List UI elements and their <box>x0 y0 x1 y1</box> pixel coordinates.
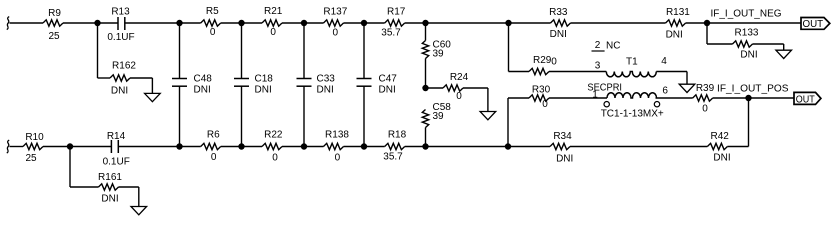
svg-text:DNI: DNI <box>379 85 396 96</box>
capacitor R13 0.1UF <box>107 7 134 44</box>
ground <box>145 93 161 101</box>
wire <box>549 71 606 73</box>
resistor R137 <box>324 20 344 26</box>
svg-text:C18: C18 <box>255 74 274 85</box>
capacitor C48 DNI <box>172 74 212 96</box>
wire <box>242 22 263 24</box>
svg-text:4: 4 <box>661 56 667 67</box>
svg-text:R5: R5 <box>206 6 219 17</box>
wire <box>425 23 427 41</box>
node junction bottom of C58 column <box>422 143 428 149</box>
svg-text:IF_I_OUT_POS: IF_I_OUT_POS <box>717 84 789 95</box>
svg-text:0.1UF: 0.1UF <box>103 157 130 168</box>
wire <box>180 22 201 24</box>
svg-text:R13: R13 <box>111 7 130 18</box>
svg-text:DNI: DNI <box>255 85 272 96</box>
wire <box>303 86 305 146</box>
svg-text:C47: C47 <box>379 74 398 85</box>
wire <box>425 128 427 147</box>
wire <box>179 86 181 146</box>
svg-text:0: 0 <box>333 27 339 38</box>
off-page connector (bottom-left torn wire) <box>7 140 9 153</box>
node junction bottom at x=508 <box>505 143 511 149</box>
off-page connector OUT (positive) <box>794 92 821 105</box>
wire <box>241 23 243 79</box>
wire <box>463 87 488 89</box>
svg-text:35.7: 35.7 <box>383 151 403 162</box>
svg-text:R21: R21 <box>264 6 283 17</box>
wire <box>98 77 111 79</box>
wire <box>509 71 530 73</box>
node junction top of C60 column <box>422 20 428 26</box>
wire <box>119 186 139 188</box>
wire <box>241 86 243 146</box>
wire <box>363 23 365 79</box>
resistor R24 0 <box>443 85 463 91</box>
wire <box>686 22 707 24</box>
wire <box>656 71 687 73</box>
svg-text:DNI: DNI <box>101 194 118 205</box>
wire <box>707 22 801 24</box>
svg-text:R18: R18 <box>388 129 407 140</box>
resistor R133 DNI <box>733 41 753 47</box>
svg-text:TC1-1-13MX+: TC1-1-13MX+ <box>601 109 664 120</box>
resistor R131 DNI <box>666 20 686 26</box>
svg-text:R17: R17 <box>387 6 406 17</box>
svg-text:R6: R6 <box>207 129 220 140</box>
wire <box>138 187 140 207</box>
wire <box>727 146 748 148</box>
wire <box>10 146 24 148</box>
node junction bottom at x=241.5 <box>238 143 244 149</box>
wire <box>69 147 71 188</box>
resistor R22 <box>262 143 282 149</box>
capacitor C18 DNI <box>234 74 273 96</box>
wire <box>508 97 529 99</box>
wire <box>426 146 508 148</box>
resistor R39 0 <box>693 95 713 101</box>
svg-text:0: 0 <box>270 27 276 38</box>
svg-text:DNI: DNI <box>556 154 573 165</box>
svg-text:DNI: DNI <box>111 86 128 97</box>
svg-text:3: 3 <box>595 61 601 72</box>
wire <box>282 146 304 148</box>
wire <box>508 146 550 148</box>
svg-text:R33: R33 <box>549 7 568 18</box>
svg-text:0: 0 <box>702 104 708 115</box>
ground <box>679 84 695 92</box>
svg-text:6: 6 <box>662 86 668 97</box>
svg-text:0: 0 <box>210 27 216 38</box>
node junction bottom at x=304.0 <box>301 143 307 149</box>
wire <box>304 22 324 24</box>
resistor R18 <box>385 143 405 149</box>
svg-text:R133: R133 <box>735 28 759 39</box>
wire <box>363 86 365 146</box>
svg-text:R29: R29 <box>533 55 552 66</box>
transformer T1 TC1-1-13MX+ <box>587 40 668 120</box>
svg-text:2: 2 <box>595 40 601 51</box>
wire <box>405 22 426 24</box>
svg-text:DNI: DNI <box>713 153 730 164</box>
svg-text:DNI: DNI <box>550 29 567 40</box>
capacitor C33 DNI <box>297 74 336 96</box>
svg-text:0: 0 <box>211 152 217 163</box>
wire <box>125 22 180 24</box>
wire <box>97 23 99 78</box>
resistor R162 DNI <box>110 75 130 81</box>
svg-text:C33: C33 <box>317 74 336 85</box>
wire <box>748 98 750 147</box>
node junction top at x=241.5 <box>238 20 244 26</box>
svg-text:R24: R24 <box>450 72 469 83</box>
resistor R161 DNI <box>99 184 119 190</box>
capacitor C47 DNI <box>357 74 398 96</box>
resistor R5 <box>201 20 221 26</box>
wire <box>98 22 119 24</box>
wire <box>364 146 385 148</box>
node junction top at x=508 <box>505 20 511 26</box>
ground <box>480 112 496 120</box>
node junction C60/C58/R24 <box>422 85 428 91</box>
wire <box>425 59 427 89</box>
svg-text:DNI: DNI <box>317 85 334 96</box>
svg-text:25: 25 <box>48 31 60 42</box>
node junction bottom at x=179.5 <box>176 143 182 149</box>
svg-text:R9: R9 <box>48 8 61 19</box>
svg-text:OUT: OUT <box>803 19 824 30</box>
svg-text:R14: R14 <box>107 131 126 142</box>
svg-text:R34: R34 <box>553 131 572 142</box>
wire <box>304 146 324 148</box>
wire <box>303 23 305 79</box>
resistor R33 DNI <box>551 20 571 26</box>
wire <box>344 22 365 24</box>
node junction top at x=364.0 <box>361 20 367 26</box>
wire <box>509 22 551 24</box>
svg-text:R42: R42 <box>711 131 730 142</box>
svg-text:0: 0 <box>335 153 341 164</box>
wire <box>63 22 98 24</box>
wire <box>221 146 242 148</box>
off-page connector OUT (negative) <box>801 18 830 31</box>
node junction at R9/R13/R162 <box>94 20 100 26</box>
wire <box>364 22 385 24</box>
wire <box>130 77 152 79</box>
wire <box>405 146 426 148</box>
svg-text:R131: R131 <box>666 7 690 18</box>
wire <box>753 43 784 45</box>
resistor R21 <box>262 20 282 26</box>
resistor R6 <box>201 143 221 149</box>
svg-text:R138: R138 <box>325 129 349 140</box>
wire <box>508 23 510 72</box>
wire <box>507 98 509 147</box>
wire <box>344 146 365 148</box>
svg-text:C48: C48 <box>194 74 213 85</box>
svg-text:39: 39 <box>433 48 445 59</box>
svg-text:IF_I_OUT_NEG: IF_I_OUT_NEG <box>711 9 782 20</box>
svg-text:OUT: OUT <box>796 94 815 105</box>
wire <box>180 146 201 148</box>
svg-text:0.1UF: 0.1UF <box>107 32 134 43</box>
resistor C60 39 <box>422 41 428 59</box>
svg-text:R39: R39 <box>696 83 715 94</box>
svg-text:39: 39 <box>433 111 445 122</box>
wire <box>656 97 693 99</box>
wire <box>282 22 304 24</box>
wire <box>118 146 179 148</box>
wire <box>570 146 707 148</box>
wire <box>70 146 111 148</box>
wire <box>426 87 444 89</box>
svg-text:DNI: DNI <box>740 50 757 61</box>
wire <box>10 22 44 24</box>
svg-text:35.7: 35.7 <box>381 28 401 39</box>
svg-text:DNI: DNI <box>194 85 211 96</box>
svg-text:0: 0 <box>272 153 278 164</box>
resistor C58 39 <box>422 110 428 128</box>
wire <box>713 97 794 99</box>
resistor R42 DNI <box>707 143 727 149</box>
ground <box>776 50 792 58</box>
wire <box>783 44 785 50</box>
svg-text:R162: R162 <box>112 61 136 72</box>
svg-text:0: 0 <box>551 57 557 68</box>
svg-text:R137: R137 <box>323 6 347 17</box>
wire <box>707 43 733 45</box>
svg-text:R30: R30 <box>532 85 551 96</box>
svg-text:DNI: DNI <box>666 30 683 41</box>
node junction top at x=304.0 <box>301 20 307 26</box>
resistor R34 DNI <box>550 143 570 149</box>
wire <box>70 186 99 188</box>
off-page connector (top-left torn wire) <box>7 17 9 30</box>
resistor R138 <box>324 143 344 149</box>
wire <box>426 22 509 24</box>
wire <box>686 72 688 85</box>
ground <box>131 207 147 215</box>
resistor R9 <box>43 20 63 26</box>
svg-text:NC: NC <box>606 41 620 52</box>
resistor R30 0 <box>529 95 549 101</box>
wire <box>571 22 666 24</box>
resistor R29 0 <box>529 68 549 74</box>
wire <box>151 78 153 93</box>
wire <box>706 23 708 44</box>
node junction bottom at x=364.0 <box>361 143 367 149</box>
svg-text:T1: T1 <box>626 57 638 68</box>
svg-text:0: 0 <box>456 91 462 102</box>
svg-text:0: 0 <box>542 99 548 110</box>
node junction top at x=179.5 <box>176 20 182 26</box>
svg-text:R161: R161 <box>98 172 122 183</box>
capacitor R14 0.1UF <box>103 131 130 168</box>
node junction at R10/R14/R161 <box>67 143 73 149</box>
wire <box>43 146 70 148</box>
node junction IF_I_OUT_POS <box>745 95 751 101</box>
svg-text:SECPRI: SECPRI <box>587 83 622 94</box>
wire <box>179 23 181 79</box>
wire <box>487 88 489 112</box>
resistor R17 <box>385 20 405 26</box>
svg-text:R10: R10 <box>25 132 44 143</box>
node junction IF_I_OUT_NEG <box>704 20 710 26</box>
svg-text:R22: R22 <box>264 129 283 140</box>
wire <box>242 146 263 148</box>
wire <box>221 22 242 24</box>
wire <box>549 97 607 99</box>
svg-text:25: 25 <box>25 153 37 164</box>
resistor R10 25 <box>23 143 43 149</box>
